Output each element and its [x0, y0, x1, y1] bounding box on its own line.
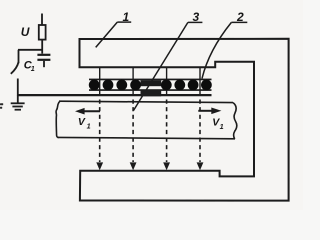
svg-text:1: 1	[220, 122, 224, 131]
label C1	[24, 60, 35, 73]
label V1 left	[78, 116, 91, 130]
svg-text:1: 1	[87, 121, 91, 130]
ground	[11, 103, 25, 109]
electrode rod bottom line	[89, 89, 212, 91]
strip bottom edge	[58, 137, 236, 138]
leader line 3	[134, 22, 188, 110]
electrode rod top line	[89, 79, 212, 81]
ground stem	[17, 96, 19, 104]
velocity arrow right (pointing right)	[198, 108, 221, 115]
switch lower rail	[17, 79, 19, 97]
dashed ion arrow 2	[130, 100, 137, 171]
lead resistor to capacitor	[41, 40, 43, 54]
strip right torn edge	[233, 103, 237, 139]
label U	[21, 25, 30, 39]
electrode hanger ticks	[100, 68, 200, 96]
svg-text:V: V	[78, 116, 86, 128]
capacitor C1	[37, 55, 50, 67]
strip left torn edge	[56, 101, 60, 137]
scan artifact marks at left edge	[0, 103, 3, 109]
label 2	[236, 10, 244, 24]
svg-text:1: 1	[31, 64, 35, 73]
svg-text:U: U	[21, 25, 30, 39]
dashed ion arrow 3	[163, 100, 170, 171]
label V1 right	[212, 116, 223, 131]
label 2 underline	[231, 21, 247, 23]
wire from circuit to electrodes	[18, 94, 212, 96]
velocity arrow left (pointing left)	[75, 108, 100, 115]
core yoke (C-shaped electromagnet core with upper and lower poles)	[80, 39, 289, 201]
strip top edge	[59, 101, 233, 102]
electrode beads group 2	[161, 80, 212, 91]
label 3 underline	[188, 21, 203, 23]
electrode beads group 1	[89, 80, 141, 91]
label 1 underline	[117, 21, 131, 23]
wire node to switch	[18, 49, 42, 51]
label 3	[193, 10, 200, 24]
dashed ion arrow 4	[197, 100, 204, 171]
leader line 2	[202, 22, 231, 78]
supply lead top	[41, 14, 43, 26]
label 1	[123, 10, 130, 24]
electrode rod gap bars	[141, 80, 162, 96]
leader line 1	[96, 22, 118, 47]
switch blade	[11, 62, 19, 74]
switch upper lead	[18, 50, 20, 64]
dashed ion arrow 1	[96, 100, 103, 171]
resistor (ballast)	[39, 25, 46, 40]
